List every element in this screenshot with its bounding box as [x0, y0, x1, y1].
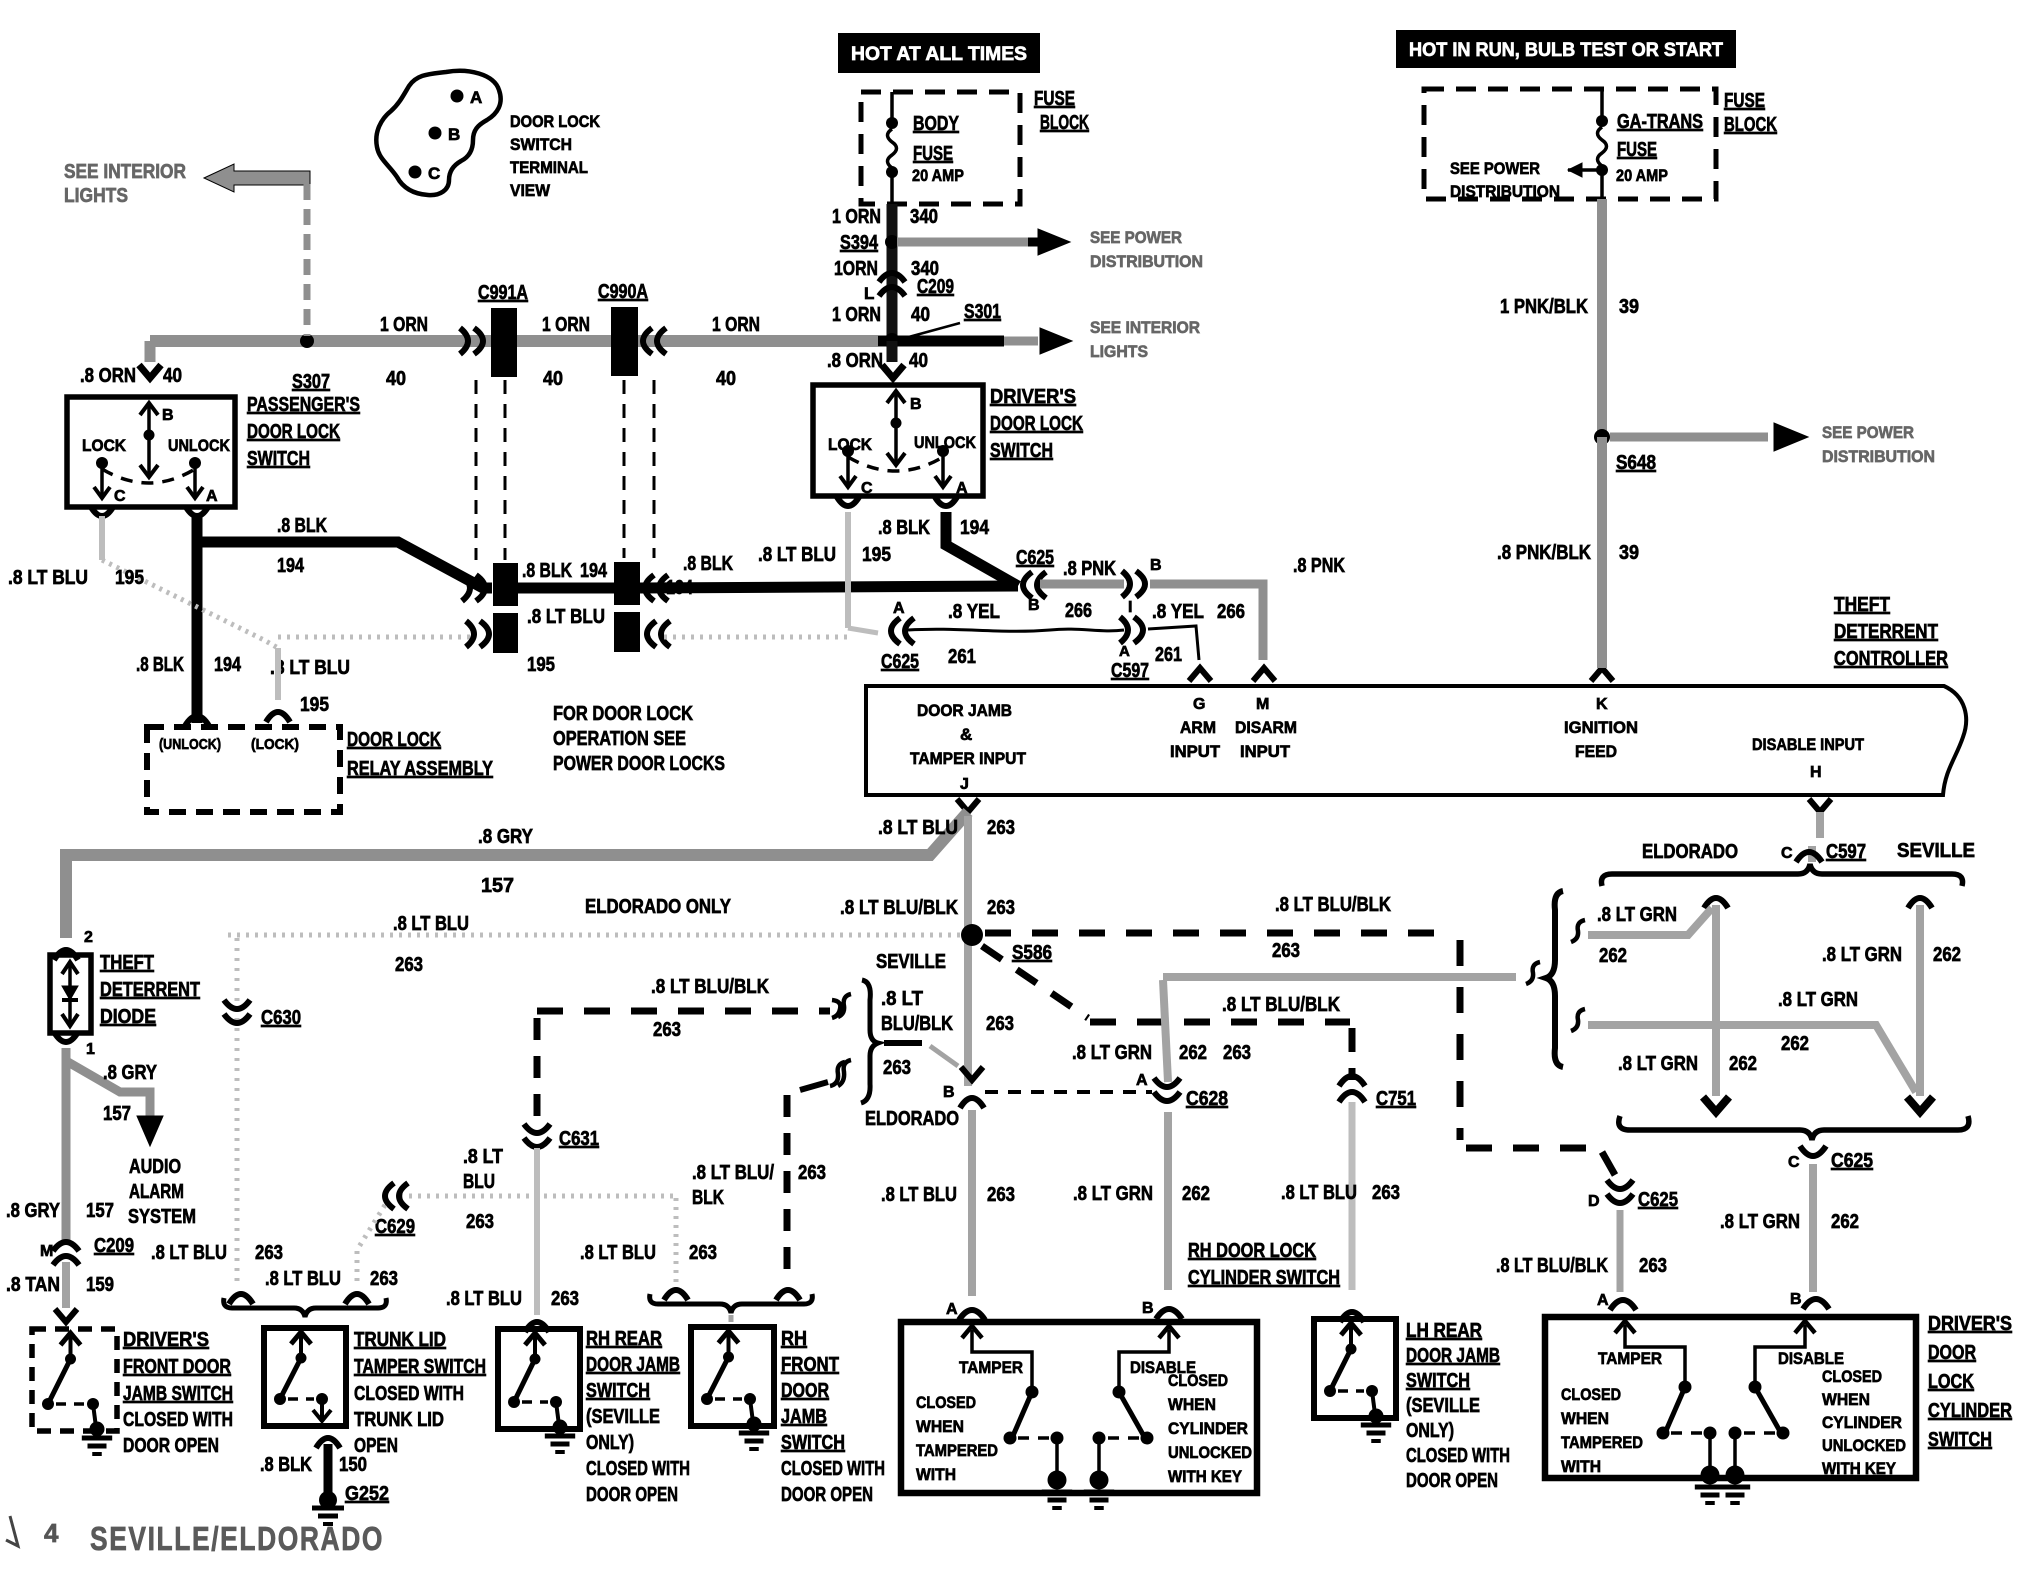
wire .8 BLK 150 to ground: [324, 1444, 333, 1496]
svg-text:194: 194: [666, 577, 694, 599]
wire 1 ORN 340 vertical: [887, 204, 898, 341]
svg-text:20 AMP: 20 AMP: [1616, 166, 1668, 185]
wire .8 LT BLU 263 dotted (eldorado only): [228, 933, 962, 938]
wire .8 GRY 157 branch to audio alarm: [68, 1062, 150, 1118]
terminal view pin C: [409, 166, 422, 179]
svg-text:263: 263: [653, 1019, 681, 1041]
driver's door lock cylinder switch S9 box: [1545, 1317, 1916, 1478]
svg-text:WITH: WITH: [1561, 1457, 1601, 1476]
svg-text:C597: C597: [1111, 660, 1149, 682]
connector C597 pin C: [1796, 852, 1822, 862]
svg-text:.8 LT BLU: .8 LT BLU: [580, 1242, 656, 1264]
wire .8 ORN drop to passenger B: [145, 341, 156, 362]
svg-text:ARM: ARM: [1180, 718, 1216, 737]
wire 1 PNK/BLK 39 (gray vertical): [1597, 199, 1607, 437]
svg-text:.8 LT GRN: .8 LT GRN: [1073, 1183, 1153, 1205]
connector C629: [385, 1183, 394, 1209]
svg-text:263: 263: [987, 897, 1015, 919]
svg-text:DRIVER'S: DRIVER'S: [1928, 1313, 2012, 1335]
svg-text:G252: G252: [345, 1483, 389, 1505]
svg-text:SEVILLE: SEVILLE: [1897, 840, 1975, 862]
svg-text:262: 262: [1729, 1053, 1757, 1075]
svg-text:(SEVILLE: (SEVILLE: [1406, 1395, 1480, 1417]
svg-text:I: I: [1128, 599, 1132, 616]
svg-text:A: A: [470, 88, 482, 107]
svg-text:CYLINDER: CYLINDER: [1168, 1419, 1248, 1438]
connector C625 pin B right half: [1136, 571, 1145, 597]
svg-text:C: C: [1781, 845, 1793, 862]
svg-text:DRIVER'S: DRIVER'S: [123, 1329, 209, 1351]
driver's door lock switch S2 box: [813, 385, 983, 496]
controller K input cap: [1591, 668, 1613, 681]
svg-text:OPEN: OPEN: [354, 1435, 398, 1457]
svg-text:DOOR JAMB: DOOR JAMB: [1406, 1345, 1500, 1367]
svg-text:A: A: [946, 1301, 958, 1318]
squiggle run1: [1571, 920, 1585, 942]
see power distribution arrow inside fuse block: [1568, 168, 1600, 172]
svg-text:.8 BLK: .8 BLK: [522, 560, 572, 582]
node S648 splice: [1594, 429, 1610, 445]
wire dashed #B down to rh front brace: [830, 1062, 845, 1086]
svg-text:DIODE: DIODE: [100, 1006, 156, 1028]
svg-text:SWITCH: SWITCH: [781, 1432, 845, 1454]
brace tip dash to S586 leg: [884, 1040, 922, 1046]
svg-text:JAMB: JAMB: [781, 1406, 827, 1428]
wire S648 to see power distribution: [1610, 433, 1768, 442]
wire .8 LT BLU 263 J drop (gray): [964, 816, 972, 1086]
svg-text:.8 LT GRN: .8 LT GRN: [1720, 1211, 1800, 1233]
svg-text:JAMB SWITCH: JAMB SWITCH: [123, 1383, 233, 1405]
svg-text:1 PNK/BLK: 1 PNK/BLK: [1500, 296, 1588, 318]
wire .8 LT BLU 195 dotted row: [275, 648, 281, 700]
svg-text:TAMPER: TAMPER: [1598, 1349, 1662, 1368]
wire .8 ORN drop to driver's B: [887, 341, 898, 362]
wire dashed R2 run to C751: [1090, 1019, 1350, 1026]
svg-text:39: 39: [1619, 296, 1639, 318]
svg-text:.8 BLK: .8 BLK: [136, 654, 184, 676]
svg-text:INPUT: INPUT: [1240, 742, 1291, 761]
svg-text:CONTROLLER: CONTROLLER: [1834, 648, 1948, 670]
wire .8 BLK 194 to driver side: [640, 586, 1018, 588]
node S301 junction: [878, 336, 1004, 347]
fuse block (body fuse) dashed box: [861, 92, 1020, 204]
terminal view pin B: [429, 127, 442, 140]
svg-text:263: 263: [883, 1057, 911, 1079]
connector C631: [524, 1138, 550, 1147]
svg-text:340: 340: [910, 206, 938, 228]
svg-text:AUDIO: AUDIO: [129, 1156, 181, 1178]
svg-text:C751: C751: [1376, 1088, 1416, 1110]
svg-text:SEE INTERIOR: SEE INTERIOR: [64, 161, 186, 183]
controller G input cap: [1189, 668, 1211, 681]
svg-text:DOOR OPEN: DOOR OPEN: [781, 1484, 873, 1506]
svg-text:C630: C630: [261, 1007, 301, 1029]
svg-text:C629: C629: [375, 1216, 415, 1238]
wire .8 GRY 157 diode down (gray): [62, 1048, 71, 1240]
svg-text:.8 BLK: .8 BLK: [683, 553, 733, 575]
node S586 junction: [961, 924, 983, 946]
wire dashed R1 to D C625: [1466, 1145, 1597, 1152]
wire .8 TAN 159 (gray): [62, 1262, 70, 1308]
svg-text:C597: C597: [1826, 841, 1866, 863]
svg-text:FUSE: FUSE: [1724, 90, 1765, 112]
wire .8 PNK to C625-B (gray): [1040, 580, 1124, 589]
passenger's door lock switch S1 box: [67, 397, 235, 507]
svg-text:J: J: [960, 776, 969, 793]
cap seville leg bottom: [1907, 1097, 1933, 1112]
rh door lock cylinder switch S7 box: [901, 1322, 1257, 1493]
svg-text:THEFT: THEFT: [1834, 594, 1890, 616]
svg-text:39: 39: [1619, 542, 1639, 564]
wire .8 LT GRN H drop to C597: [1816, 812, 1824, 838]
theft deterrent controller U1 box: [866, 686, 1966, 795]
svg-text:(UNLOCK): (UNLOCK): [159, 736, 221, 753]
svg-text:BLU/BLK: BLU/BLK: [881, 1013, 953, 1035]
svg-text:THEFT: THEFT: [100, 952, 154, 974]
svg-text:FUSE: FUSE: [1034, 88, 1075, 110]
lh rear door jamb switch S8 entry cap: [1340, 1312, 1364, 1322]
wire .8 LT BLU from C631 (dotted gray fan): [534, 1148, 540, 1196]
svg-text:.8 BLK: .8 BLK: [878, 517, 930, 539]
svg-text:C628: C628: [1186, 1088, 1228, 1110]
svg-text:CYLINDER: CYLINDER: [1928, 1400, 2012, 1422]
svg-text:CYLINDER: CYLINDER: [1822, 1413, 1902, 1432]
brace above rh front jamb switch: [650, 1294, 813, 1313]
svg-text:266: 266: [1217, 601, 1245, 623]
svg-text:.8 BLK: .8 BLK: [277, 515, 327, 537]
svg-text:DOOR JAMB: DOOR JAMB: [917, 701, 1012, 720]
door lock switch terminal view outline: [376, 71, 500, 195]
svg-text:.8 PNK/BLK: .8 PNK/BLK: [1497, 542, 1591, 564]
terminal B (eldorado) cap: [961, 1067, 983, 1080]
svg-text:TAMPER INPUT: TAMPER INPUT: [910, 749, 1027, 768]
svg-text:.8 LT BLU: .8 LT BLU: [270, 657, 350, 679]
svg-text:POWER DOOR LOCKS: POWER DOOR LOCKS: [553, 753, 725, 775]
svg-text:C625: C625: [1016, 547, 1054, 569]
svg-text:BLU: BLU: [463, 1171, 495, 1193]
svg-text:WHEN: WHEN: [1168, 1395, 1216, 1414]
svg-text:.8 LT BLU: .8 LT BLU: [881, 1184, 957, 1206]
svg-text:UNLOCK: UNLOCK: [914, 433, 977, 452]
svg-text:C625: C625: [1831, 1150, 1873, 1172]
svg-text:.8 LT BLU: .8 LT BLU: [151, 1242, 227, 1264]
svg-text:INPUT: INPUT: [1170, 742, 1221, 761]
svg-text:ONLY): ONLY): [1406, 1420, 1454, 1442]
label HOT IN RUN BULB TEST OR START banner: [1396, 30, 1736, 68]
svg-text:TERMINAL: TERMINAL: [510, 158, 588, 177]
svg-text:SEVILLE: SEVILLE: [876, 951, 946, 973]
svg-text:LOCK: LOCK: [828, 435, 873, 454]
squiggle run2: [1571, 1009, 1585, 1031]
svg-text:.8 LT BLU: .8 LT BLU: [527, 606, 605, 628]
svg-text:A: A: [893, 600, 905, 617]
svg-text:PASSENGER'S: PASSENGER'S: [247, 394, 360, 416]
svg-text:266: 266: [1065, 600, 1092, 622]
svg-text:FUSE: FUSE: [1617, 139, 1657, 161]
svg-text:G: G: [1193, 696, 1205, 713]
svg-text:M: M: [40, 1243, 53, 1260]
svg-text:DOOR JAMB: DOOR JAMB: [586, 1354, 680, 1376]
svg-text:.8 BLK: .8 BLK: [260, 1454, 312, 1476]
svg-text:CLOSED: CLOSED: [916, 1393, 976, 1412]
cap eldorado leg: [1704, 898, 1728, 908]
svg-text:DOOR LOCK: DOOR LOCK: [347, 729, 441, 751]
ground G252: [312, 1506, 344, 1511]
connector C209 inline (body feed): [879, 273, 905, 282]
controller M input cap: [1253, 668, 1275, 681]
rh rear door jamb switch S5: [498, 1329, 580, 1429]
svg-text:UNLOCK: UNLOCK: [168, 436, 231, 455]
svg-text:B: B: [1150, 557, 1162, 574]
svg-text:.8 ORN: .8 ORN: [827, 350, 883, 372]
svg-text:.8 PNK: .8 PNK: [1293, 555, 1345, 577]
svg-text:B: B: [1142, 1300, 1154, 1317]
svg-text:BLOCK: BLOCK: [1724, 114, 1777, 136]
wire .8 LT GRN gray run (to seville brace): [1163, 973, 1516, 981]
svg-text:&: &: [960, 725, 972, 744]
connector C630: [224, 1014, 250, 1023]
svg-text:FRONT: FRONT: [781, 1354, 839, 1376]
svg-text:262: 262: [1831, 1211, 1859, 1233]
svg-text:.8 LT GRN: .8 LT GRN: [1597, 904, 1677, 926]
driver switch connector caps: [837, 497, 859, 506]
svg-text:SWITCH: SWITCH: [510, 135, 572, 154]
wire + arrow see interior lights (top-left, gray): [204, 164, 310, 192]
svg-text:.8 YEL: .8 YEL: [948, 601, 1000, 623]
fuse F1 BODY FUSE 20 AMP symbol: [890, 92, 894, 123]
svg-text:A: A: [206, 488, 218, 505]
connector C597 pin A: [1134, 617, 1143, 643]
wire .8 LT GRN run1 (gray): [1588, 908, 1712, 935]
driver cyl A/B caps: [1610, 1300, 1636, 1310]
svg-text:.8 PNK: .8 PNK: [1063, 558, 1116, 580]
svg-text:1 ORN: 1 ORN: [542, 314, 590, 336]
svg-text:.8 LT BLU: .8 LT BLU: [446, 1288, 522, 1310]
svg-text:.8 LT BLU/BLK: .8 LT BLU/BLK: [1496, 1255, 1608, 1277]
svg-text:C209: C209: [917, 276, 954, 298]
wire S586 diagonal dashed to R2: [982, 946, 1088, 1018]
svg-text:262: 262: [1781, 1033, 1809, 1055]
svg-text:TAMPER SWITCH: TAMPER SWITCH: [354, 1356, 486, 1378]
brace (seville/eldorado split): [861, 980, 878, 1103]
connector C625 pin C: [1800, 1146, 1826, 1156]
svg-text:CLOSED WITH: CLOSED WITH: [781, 1458, 885, 1480]
svg-text:SEVILLE/ELDORADO: SEVILLE/ELDORADO: [90, 1520, 384, 1557]
node S307 splice: [300, 334, 314, 348]
svg-text:194: 194: [214, 654, 242, 676]
svg-text:263: 263: [551, 1288, 579, 1310]
wire .8 PNK/BLK 39 to K (gray): [1597, 437, 1607, 668]
svg-text:.8 GRY: .8 GRY: [478, 826, 534, 848]
svg-text:LIGHTS: LIGHTS: [1090, 342, 1148, 361]
svg-text:261: 261: [948, 646, 976, 668]
relay input caps: [185, 716, 209, 726]
svg-text:194: 194: [960, 517, 990, 539]
svg-text:DOOR LOCK: DOOR LOCK: [990, 413, 1083, 435]
svg-text:262: 262: [1182, 1183, 1210, 1205]
svg-text:FOR DOOR LOCK: FOR DOOR LOCK: [553, 703, 693, 725]
svg-text:L: L: [864, 284, 874, 303]
svg-text:2: 2: [84, 929, 93, 946]
svg-text:194: 194: [580, 560, 608, 582]
svg-text:S301: S301: [964, 301, 1001, 323]
svg-text:SEE POWER: SEE POWER: [1450, 159, 1540, 178]
svg-text:FEED: FEED: [1575, 742, 1617, 761]
svg-text:DISTRIBUTION: DISTRIBUTION: [1450, 182, 1560, 201]
controller J output cap: [957, 799, 979, 812]
svg-text:263: 263: [1639, 1255, 1667, 1277]
svg-text:BODY: BODY: [913, 113, 960, 135]
svg-text:SWITCH: SWITCH: [586, 1380, 650, 1402]
svg-text:C: C: [114, 488, 126, 505]
svg-text:40: 40: [911, 304, 930, 326]
wire .8 GRY 157 (big gray loop): [66, 812, 968, 938]
svg-text:A: A: [1119, 643, 1130, 660]
svg-text:.8 LT BLU/BLK: .8 LT BLU/BLK: [651, 976, 769, 998]
svg-text:LOCK: LOCK: [1928, 1371, 1974, 1393]
svg-text:TRUNK LID: TRUNK LID: [354, 1329, 446, 1351]
svg-text:TRUNK LID: TRUNK LID: [354, 1409, 444, 1431]
svg-text:DOOR LOCK: DOOR LOCK: [510, 112, 601, 131]
label HOT AT ALL TIMES banner: [838, 33, 1040, 73]
wire .8 LT GRN run2 (gray): [1588, 1025, 1916, 1092]
svg-text:ELDORADO: ELDORADO: [1642, 841, 1738, 863]
svg-text:LH REAR: LH REAR: [1406, 1320, 1482, 1342]
svg-text:DOOR: DOOR: [1928, 1342, 1976, 1364]
svg-text:40: 40: [163, 365, 182, 387]
svg-text:1 ORN: 1 ORN: [832, 206, 881, 228]
svg-text:.8 LT BLU: .8 LT BLU: [265, 1268, 341, 1290]
brace above trunk lid switch: [224, 1298, 387, 1317]
svg-text:C991A: C991A: [478, 282, 528, 304]
wire .8 YEL to G input: [1148, 626, 1199, 660]
svg-text:CLOSED: CLOSED: [1561, 1385, 1621, 1404]
wire .8 BLK 194 between connectors: [517, 583, 614, 594]
wire 1 ORN 40 horizontal (gray run to switches): [150, 335, 878, 347]
wire dashed B to C628: [985, 1090, 1152, 1094]
svg-text:DISTRIBUTION: DISTRIBUTION: [1090, 252, 1203, 271]
connector C628: [1154, 1092, 1180, 1101]
svg-text:.8 YEL: .8 YEL: [1152, 601, 1204, 623]
svg-text:IGNITION: IGNITION: [1564, 718, 1638, 737]
svg-text:DETERRENT: DETERRENT: [1834, 621, 1938, 643]
svg-text:195: 195: [115, 567, 144, 589]
svg-text:C: C: [861, 480, 873, 497]
svg-text:CLOSED: CLOSED: [1168, 1371, 1228, 1390]
svg-text:1: 1: [86, 1041, 95, 1058]
svg-text:40: 40: [543, 368, 563, 390]
wire .8 LT BLU/BLK 263 (D drop gray): [1617, 1210, 1624, 1292]
svg-text:UNLOCKED: UNLOCKED: [1822, 1436, 1906, 1455]
svg-text:WHEN: WHEN: [1561, 1409, 1609, 1428]
svg-text:RH DOOR LOCK: RH DOOR LOCK: [1188, 1240, 1316, 1262]
svg-text:(SEVILLE: (SEVILLE: [586, 1406, 660, 1428]
svg-text:GA-TRANS: GA-TRANS: [1617, 111, 1703, 133]
connector C625 pin D: [1607, 1194, 1633, 1203]
wire C630 dotted vertical: [235, 938, 240, 1286]
node S394 splice: [885, 235, 899, 249]
trunk lid tamper switch S4: [264, 1328, 346, 1426]
svg-text:WHEN: WHEN: [1822, 1390, 1870, 1409]
svg-text:DOOR OPEN: DOOR OPEN: [123, 1435, 219, 1457]
svg-text:.8 ORN: .8 ORN: [80, 365, 136, 387]
svg-text:WITH: WITH: [916, 1465, 956, 1484]
diode terminal 2 cap: [54, 950, 78, 960]
svg-text:195: 195: [300, 694, 329, 716]
svg-text:FUSE: FUSE: [913, 143, 953, 165]
svg-text:.8 LT BLU: .8 LT BLU: [878, 817, 958, 839]
svg-text:WITH KEY: WITH KEY: [1168, 1467, 1243, 1486]
svg-text:S648: S648: [1616, 452, 1656, 474]
wire to see interior lights (right arrow): [1004, 337, 1038, 346]
svg-text:CLOSED WITH: CLOSED WITH: [1406, 1445, 1510, 1467]
svg-text:.8 LT BLU/BLK: .8 LT BLU/BLK: [840, 897, 958, 919]
trunk lid switch exit cap: [316, 1438, 340, 1448]
cap eldorado leg bottom: [1703, 1097, 1729, 1112]
rh rear door jamb switch S5 entry cap: [525, 1322, 549, 1332]
svg-text:.8 LT BLU: .8 LT BLU: [393, 913, 469, 935]
svg-text:B: B: [1790, 1291, 1802, 1308]
svg-text:CYLINDER SWITCH: CYLINDER SWITCH: [1188, 1267, 1340, 1289]
wire .8 BLK 194 driver A diagonal: [946, 512, 1018, 586]
door lock relay assembly K1 dashed box: [147, 727, 340, 812]
svg-text:SWITCH: SWITCH: [990, 440, 1053, 462]
svg-text:C: C: [1788, 1154, 1800, 1171]
svg-text:DETERRENT: DETERRENT: [100, 979, 200, 1001]
svg-text:SWITCH: SWITCH: [1406, 1370, 1470, 1392]
svg-text:OPERATION SEE: OPERATION SEE: [553, 728, 686, 750]
theft deterrent diode CR1: [50, 955, 91, 1033]
svg-text:DISARM: DISARM: [1235, 718, 1297, 737]
svg-text:VIEW: VIEW: [510, 181, 551, 200]
wire .8 LT BLU 263 (S586 to A cyl) gray: [968, 1110, 976, 1296]
svg-text:.8 LT BLU: .8 LT BLU: [1281, 1182, 1357, 1204]
svg-text:157: 157: [481, 875, 514, 897]
svg-text:HOT IN RUN, BULB TEST OR START: HOT IN RUN, BULB TEST OR START: [1409, 40, 1723, 61]
wire .8 LT GRN 262 (C625-C drop gray): [1809, 1164, 1817, 1292]
svg-text:WITH KEY: WITH KEY: [1822, 1459, 1897, 1478]
svg-text:FRONT DOOR: FRONT DOOR: [123, 1356, 231, 1378]
svg-text:DISABLE: DISABLE: [1778, 1349, 1844, 1368]
passenger switch connector caps: [91, 507, 113, 516]
svg-text:263: 263: [255, 1242, 283, 1264]
svg-text:263: 263: [370, 1268, 398, 1290]
svg-text:.8 LT: .8 LT: [881, 988, 923, 1010]
svg-text:157: 157: [103, 1103, 131, 1125]
svg-text:.8 LT GRN: .8 LT GRN: [1778, 989, 1858, 1011]
svg-text:K: K: [1596, 696, 1608, 713]
svg-text:S307: S307: [292, 371, 330, 393]
svg-text:.8 TAN: .8 TAN: [6, 1274, 60, 1296]
svg-text:A: A: [1597, 1292, 1609, 1309]
svg-text:.8 LT BLU: .8 LT BLU: [8, 567, 88, 589]
svg-text:1 ORN: 1 ORN: [832, 304, 881, 326]
svg-text:ELDORADO: ELDORADO: [865, 1108, 959, 1130]
svg-text:CLOSED WITH: CLOSED WITH: [586, 1458, 690, 1480]
svg-text:CLOSED: CLOSED: [1822, 1367, 1882, 1386]
wire .8 LT BLU 263 (C751 vertical gray): [1349, 1102, 1356, 1290]
svg-text:263: 263: [798, 1162, 826, 1184]
svg-text:LIGHTS: LIGHTS: [64, 185, 128, 207]
svg-text:S394: S394: [840, 232, 879, 254]
svg-text:LOCK: LOCK: [82, 436, 127, 455]
wire .8 LT BLU 263 vertical to rh front brace (dotted): [674, 1198, 679, 1282]
svg-text:263: 263: [987, 1184, 1015, 1206]
wire .8 LT GRN (seville leg gray): [1916, 905, 1924, 1096]
svg-text:SWITCH: SWITCH: [247, 448, 310, 470]
driver's front door jamb switch S3: [32, 1329, 117, 1431]
svg-text:ALARM: ALARM: [129, 1181, 184, 1203]
